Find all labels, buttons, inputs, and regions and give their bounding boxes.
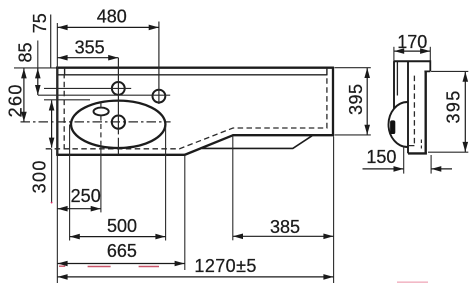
countertop front edge left section [56, 154, 184, 156]
dimension 1270±5 [58, 276, 334, 278]
dimension 85 [37, 68, 39, 95]
basin oval [71, 101, 165, 148]
dimension 300 basin depth [51, 100, 53, 147]
dimension 480 [58, 26, 159, 28]
side view bottom edge [408, 152, 427, 154]
dimension 395 side view [464, 72, 466, 152]
svg-text:395: 395 [346, 83, 366, 115]
rim corner tick left [64, 68, 66, 76]
500 left extension [69, 125, 71, 241]
hidden wall line short dashed [420, 140, 422, 149]
rim corner tick right [326, 68, 328, 76]
svg-text:355: 355 [75, 37, 105, 57]
extension line right hole to 480 [158, 22, 160, 105]
dimension 170 [394, 50, 430, 52]
countertop front edge right section [233, 134, 335, 136]
svg-text:480: 480 [97, 6, 127, 26]
svg-text:500: 500 [107, 216, 137, 236]
hidden inner left edge dashed [63, 76, 65, 149]
countertop front diagonal transition [184, 135, 233, 155]
overflow slot oval [94, 108, 109, 116]
segment to front edge x118 [117, 142, 119, 155]
side view body left wall [407, 62, 409, 154]
side view right wall [425, 71, 427, 153]
svg-text:385: 385 [270, 217, 300, 237]
665 right extension [184, 156, 186, 270]
svg-text:260: 260 [6, 83, 26, 117]
side view bowl arc [389, 102, 408, 147]
svg-text:75: 75 [30, 13, 50, 33]
overflow extension to 250 dim [100, 144, 102, 212]
countertop top outer edge [56, 67, 334, 69]
dimension 300 line extension below [51, 149, 53, 203]
left edge extension line full [56, 23, 58, 283]
395 side bottom extension [428, 151, 468, 153]
right hole centerline [38, 94, 170, 96]
red artifact segment 3 on 665 line [139, 266, 159, 268]
dimension 355 [58, 57, 119, 59]
svg-text:170: 170 [397, 32, 427, 52]
170 right extension [429, 47, 431, 62]
upper left faucet hole [112, 82, 125, 95]
dimension 85 line extension up to label [37, 41, 39, 69]
385 left extension [232, 136, 234, 240]
395 side top extension [431, 70, 468, 72]
dimension 395 main view [366, 68, 368, 135]
dimension 665 [58, 263, 185, 265]
svg-text:1270±5: 1270±5 [194, 256, 256, 276]
pink artifact line bottom right [397, 281, 428, 283]
150 right extension [430, 155, 432, 174]
red artifact dot at 300 line end [51, 202, 53, 204]
dimension 150 left part with right arrow [363, 168, 404, 170]
hidden segment below main hole [117, 129, 119, 141]
countertop left edge [56, 67, 58, 156]
svg-text:150: 150 [366, 147, 396, 167]
170 left extension [393, 47, 395, 62]
svg-text:665: 665 [107, 241, 137, 261]
inner front contour lower shelf [202, 136, 312, 149]
extension line through faucet holes x118 [117, 58, 119, 130]
main faucet hole [112, 116, 125, 129]
upper right faucet hole [153, 90, 166, 103]
drain fitting black mark [390, 120, 395, 134]
dimension 500 [70, 236, 166, 238]
svg-text:85: 85 [16, 42, 36, 62]
svg-text:395: 395 [444, 89, 464, 123]
overflow hole upper tick [100, 102, 102, 108]
basin centerline dash-dot [21, 121, 171, 123]
inner rim line along top [58, 74, 327, 76]
svg-text:300: 300 [30, 159, 50, 193]
left hole centerline [44, 87, 131, 89]
150 left extension [403, 147, 405, 174]
red artifact segment 1 on 665 line [59, 265, 65, 267]
side view top edge [394, 60, 431, 62]
top edge extension to left margin [14, 67, 56, 69]
side view step right [424, 60, 430, 71]
395 main top extension [335, 67, 371, 69]
side view hidden inner contour [409, 76, 415, 146]
dimension 250 [58, 208, 101, 210]
hidden inner contour dashed [46, 75, 327, 149]
overflow hole hidden extension [100, 116, 102, 144]
side view upper left wall inner [396, 61, 398, 95]
ellipse top extension line [44, 99, 90, 101]
500 right extension [165, 127, 167, 241]
dimension 260 [23, 68, 25, 122]
dimension 385 [233, 235, 334, 237]
svg-text:250: 250 [71, 186, 101, 206]
countertop right edge [332, 67, 334, 136]
right edge extension down [333, 137, 335, 284]
side view upper left wall outer [393, 61, 395, 108]
395 main bottom extension [335, 134, 371, 136]
red artifact segment 2 on 665 line [88, 266, 111, 268]
dimension 150 right part with left arrow [431, 168, 452, 170]
75 offset line [50, 15, 52, 69]
